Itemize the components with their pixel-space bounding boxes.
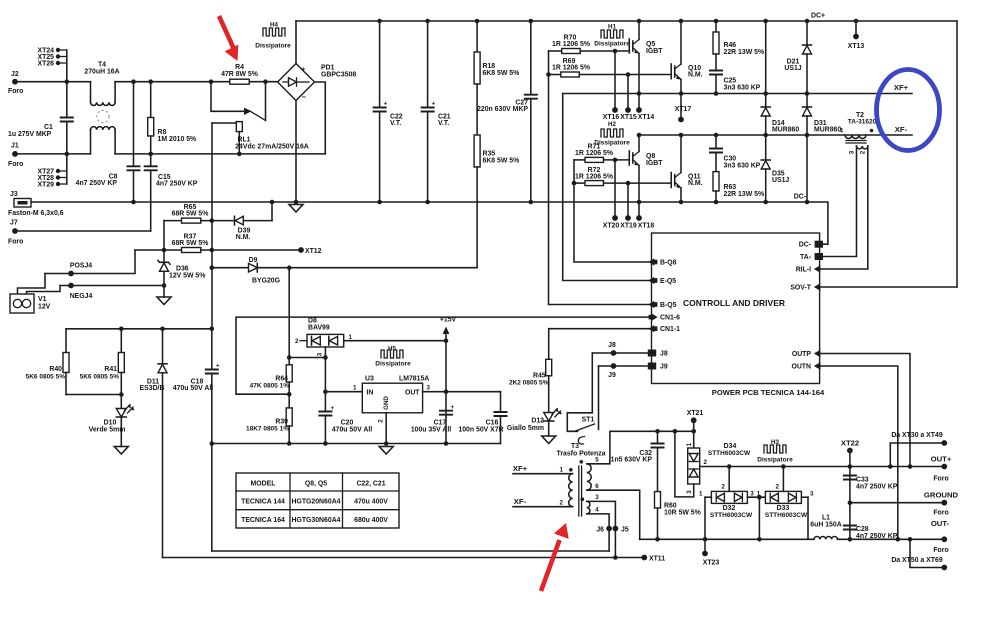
winding T3 secondary 1 — [587, 464, 591, 490]
svg-text:OUT: OUT — [405, 390, 420, 397]
ground at PD1 minus — [289, 205, 303, 213]
transistor Q5 IGBT — [629, 19, 663, 55]
terminal XT12 — [298, 247, 322, 255]
capacitor C8 — [76, 79, 141, 204]
wire mains L line — [15, 81, 91, 83]
svg-text:Giallo 5mm: Giallo 5mm — [507, 425, 544, 432]
svg-text:C33: C33 — [856, 477, 869, 484]
terminal XT11 — [641, 555, 665, 563]
svg-text:PD1: PD1 — [321, 65, 335, 72]
wire Q5 emitter — [638, 54, 640, 111]
wire OUTN to OUT- — [820, 366, 898, 539]
svg-text:220n 630V MKP: 220n 630V MKP — [477, 106, 528, 113]
terminal XT18 — [636, 215, 654, 229]
wire D32 D33 junction to bus — [758, 497, 760, 539]
svg-text:2: 2 — [704, 459, 708, 466]
zener diode D36 — [158, 250, 205, 297]
wire T3 pin4 and node J6 — [587, 514, 609, 551]
ground at U3 — [379, 447, 393, 455]
svg-text:US1J: US1J — [772, 177, 789, 184]
svg-text:2: 2 — [722, 484, 726, 491]
wire OUTP to OUT+ — [820, 354, 910, 467]
svg-text:6K8 5W 5%: 6K8 5W 5% — [483, 158, 520, 165]
svg-text:4: 4 — [840, 128, 844, 135]
svg-text:STTH6003CW: STTH6003CW — [708, 450, 751, 457]
svg-text:J8: J8 — [660, 350, 668, 357]
svg-text:D12: D12 — [531, 418, 544, 425]
svg-text:J3: J3 — [10, 191, 18, 198]
terminals XT24 XT25 XT26 — [38, 48, 67, 68]
inductor L1 — [810, 515, 841, 540]
svg-text:BAV99: BAV99 — [308, 325, 330, 332]
resistor R4 — [209, 64, 268, 84]
svg-text:1: 1 — [757, 491, 761, 498]
winding T3 secondary 2 — [587, 501, 590, 514]
node Da XT30 a XT49 — [888, 432, 947, 469]
winding T3 primary — [569, 474, 573, 507]
svg-text:U3: U3 — [365, 376, 374, 383]
svg-text:MUR860: MUR860 — [814, 127, 841, 134]
svg-text:CN1-1: CN1-1 — [660, 326, 680, 333]
terminal XT14 — [636, 107, 654, 121]
resistor R40 — [26, 329, 69, 395]
resistor R63 — [713, 172, 764, 205]
svg-text:J8: J8 — [608, 342, 616, 349]
terminal XT17 — [675, 94, 692, 123]
svg-text:R4: R4 — [235, 64, 244, 71]
svg-text:C16: C16 — [486, 420, 499, 427]
svg-text:470u 50V All: 470u 50V All — [173, 385, 213, 392]
node XF- primary — [513, 497, 573, 507]
relay RL1 contact — [211, 82, 266, 121]
pin E-Q5 — [648, 277, 676, 285]
diode D39 — [235, 200, 275, 241]
svg-text:J9: J9 — [660, 363, 668, 370]
svg-text:XF+: XF+ — [894, 83, 909, 92]
svg-text:Dissipatore: Dissipatore — [255, 43, 291, 50]
svg-text:+: + — [384, 101, 388, 108]
svg-text:XT23: XT23 — [703, 560, 720, 567]
pin SOV-T — [790, 283, 820, 291]
connector J2 — [8, 71, 23, 95]
resistor R39 — [246, 394, 292, 446]
svg-text:5: 5 — [595, 457, 599, 464]
heatsink H1 dissipatore — [594, 24, 630, 48]
svg-text:J5: J5 — [621, 527, 629, 534]
svg-text:IGBT: IGBT — [646, 48, 663, 55]
svg-text:GND: GND — [383, 396, 390, 410]
svg-text:C22, C21: C22, C21 — [356, 481, 385, 488]
node POSJ4 — [45, 250, 135, 276]
svg-text:J7: J7 — [10, 220, 18, 227]
wire XT column vertical — [66, 50, 68, 118]
resistor R64 — [250, 268, 293, 397]
switch ST1 thermostat — [574, 417, 595, 445]
wire output negative bus — [640, 538, 814, 540]
svg-text:Foro: Foro — [933, 547, 948, 554]
svg-text:DC-: DC- — [794, 194, 807, 201]
svg-text:+15V: +15V — [440, 317, 457, 324]
svg-text:1M 2010 5%: 1M 2010 5% — [158, 136, 197, 143]
svg-text:R39: R39 — [275, 419, 288, 426]
node +15V — [440, 317, 457, 446]
svg-text:R18: R18 — [483, 63, 496, 70]
pin OUTN — [791, 362, 820, 370]
svg-text:GBPC3508: GBPC3508 — [321, 72, 356, 79]
capacitor C32 — [611, 431, 665, 491]
svg-text:10R 5W 5%: 10R 5W 5% — [664, 510, 701, 517]
svg-text:1R 1206 5%: 1R 1206 5% — [552, 41, 590, 48]
svg-text:TECNICA 164: TECNICA 164 — [241, 517, 285, 524]
svg-text:H5: H5 — [388, 346, 396, 353]
svg-text:3: 3 — [686, 490, 693, 494]
svg-text:3: 3 — [849, 150, 856, 154]
heatsink H2 dissipatore — [594, 121, 630, 147]
terminal XT19 — [620, 181, 637, 230]
svg-text:GROUND: GROUND — [924, 491, 959, 500]
svg-text:H2: H2 — [608, 121, 616, 128]
wire right border to SOV-T — [956, 21, 958, 287]
wire U3 output pin 3 — [423, 391, 501, 393]
wire PD1 plus to top bus — [295, 21, 297, 64]
svg-text:TA-31620: TA-31620 — [848, 119, 877, 126]
diode D21 — [784, 19, 811, 107]
svg-text:HGTG30N60A4: HGTG30N60A4 — [291, 517, 340, 524]
wire J8 to ST1 — [567, 353, 592, 431]
terminals XT27 XT28 XT29 — [38, 169, 67, 189]
table model selection — [236, 473, 399, 528]
svg-text:68R 5W 5%: 68R 5W 5% — [172, 240, 209, 247]
wire D34 pin3 loop — [675, 431, 694, 497]
svg-text:HGTG20N60A4: HGTG20N60A4 — [291, 499, 340, 506]
connector J3 faston — [8, 191, 64, 217]
svg-text:Foro: Foro — [8, 88, 23, 95]
svg-text:T3: T3 — [571, 443, 579, 450]
svg-text:Q5: Q5 — [646, 41, 655, 48]
wire mid node XF+ line — [563, 93, 912, 95]
svg-text:XT22: XT22 — [841, 439, 859, 448]
wire T3 pin6 — [587, 490, 640, 539]
svg-text:+: + — [216, 363, 220, 370]
svg-text:OUTP: OUTP — [792, 351, 812, 358]
node XF+ primary — [513, 464, 573, 474]
node NEGJ4 — [60, 283, 164, 300]
pin B-Q5 — [648, 301, 676, 309]
svg-text:4n7 250V KP: 4n7 250V KP — [856, 533, 898, 540]
bridge rectifier PD1 — [278, 64, 357, 102]
svg-text:RL1: RL1 — [237, 137, 250, 144]
diode D31 — [803, 91, 842, 204]
wire DC- bus — [31, 202, 828, 244]
wire mains N line — [15, 153, 91, 155]
svg-text:XT17: XT17 — [675, 106, 692, 113]
svg-text:68R 5W 5%: 68R 5W 5% — [172, 211, 209, 218]
svg-text:Foro: Foro — [933, 476, 948, 483]
capacitor C20 — [318, 358, 372, 446]
terminal XT13 — [848, 19, 865, 50]
svg-text:OUT-: OUT- — [931, 519, 950, 528]
svg-text:C17: C17 — [434, 420, 447, 427]
svg-text:J2: J2 — [11, 71, 19, 78]
svg-text:E-Q5: E-Q5 — [660, 278, 676, 285]
svg-text:3: 3 — [810, 491, 814, 498]
diode D11 — [140, 329, 167, 558]
node Da XT50 a XT69 — [891, 537, 947, 570]
pin DC- — [799, 241, 823, 249]
ground at D10 — [114, 447, 128, 455]
diode D9 — [210, 257, 478, 285]
ground at D12 — [542, 436, 556, 444]
svg-text:100u 35V All: 100u 35V All — [411, 427, 451, 434]
svg-text:1: 1 — [686, 442, 693, 446]
svg-text:R8: R8 — [158, 129, 167, 136]
svg-text:J6: J6 — [596, 527, 604, 534]
resistor R71 — [574, 144, 629, 163]
svg-text:1R 1206 5%: 1R 1206 5% — [575, 150, 613, 157]
svg-text:J1: J1 — [11, 143, 19, 150]
svg-text:680u 400V: 680u 400V — [354, 517, 388, 524]
node J8 external — [592, 342, 651, 356]
svg-text:+: + — [301, 65, 306, 74]
wire bus C18 to T3 pin4 — [212, 550, 609, 552]
capacitor C27 — [477, 19, 538, 205]
svg-text:4n7 250V KP: 4n7 250V KP — [856, 484, 898, 491]
svg-text:2: 2 — [560, 500, 564, 507]
wire R65 left to R37 — [163, 221, 165, 250]
svg-text:2: 2 — [295, 338, 299, 345]
led D10 verde — [89, 395, 135, 447]
svg-text:XT16: XT16 — [603, 114, 620, 121]
svg-text:XF-: XF- — [895, 125, 908, 134]
svg-text:IGBT: IGBT — [646, 160, 663, 167]
wire J9 to ST1 — [598, 366, 600, 430]
diode D14 — [761, 19, 799, 160]
terminal XT16 — [603, 49, 620, 121]
svg-text:D9: D9 — [249, 257, 258, 264]
wire PD1 AC2 to mains N — [315, 82, 326, 154]
connector J7 — [8, 220, 151, 246]
resistor R69 — [546, 58, 671, 77]
capacitor C15 — [144, 166, 198, 231]
svg-text:3: 3 — [595, 494, 599, 501]
wire gate node to B-Q5 — [549, 51, 652, 305]
resistor R60 — [655, 492, 701, 542]
annotation red arrow to T3 — [541, 523, 569, 591]
svg-text:Dissipatore: Dissipatore — [375, 361, 411, 368]
regulator U3 LM7815A — [362, 376, 429, 413]
capacitor C25 — [709, 71, 761, 96]
diode D8 BAV99 — [295, 318, 352, 348]
relay RL1 coil — [212, 122, 309, 157]
svg-text:47K 0805 1%: 47K 0805 1% — [250, 383, 290, 390]
pin RIL-I — [796, 265, 821, 273]
pin J9 — [648, 363, 668, 371]
svg-text:XT14: XT14 — [638, 114, 655, 121]
svg-text:NEGJ4: NEGJ4 — [70, 293, 93, 300]
svg-text:D32: D32 — [723, 505, 736, 512]
svg-text:22R 13W 5%: 22R 13W 5% — [724, 191, 765, 198]
svg-text:Da XT30 a XT49: Da XT30 a XT49 — [891, 432, 942, 439]
ground at D36 — [157, 297, 171, 305]
svg-text:LM7815A: LM7815A — [399, 376, 429, 383]
svg-text:V1: V1 — [38, 296, 47, 303]
pin B-Q8 — [648, 258, 676, 266]
svg-text:6uH 150A: 6uH 150A — [810, 522, 841, 529]
svg-text:MODEL: MODEL — [251, 481, 276, 488]
resistor R35 — [474, 84, 519, 268]
heatsink H3 dissipatore — [757, 439, 793, 464]
svg-text:C28: C28 — [856, 526, 869, 533]
svg-text:4: 4 — [595, 507, 599, 514]
svg-text:OUTN: OUTN — [791, 363, 811, 370]
svg-text:CONTROLL AND DRIVER: CONTROLL AND DRIVER — [683, 298, 785, 308]
node OUT- foro — [931, 519, 950, 554]
svg-text:ST1: ST1 — [582, 417, 595, 424]
svg-text:100n 50V X7R: 100n 50V X7R — [458, 427, 503, 434]
wire XF- line — [639, 134, 912, 136]
svg-text:Foro: Foro — [8, 239, 23, 246]
resistor R8 — [148, 79, 197, 166]
wire D32 pin1 to bus and XT23 — [704, 497, 706, 539]
svg-text:J9: J9 — [608, 372, 616, 379]
resistor R37 — [135, 234, 301, 253]
svg-text:XF+: XF+ — [513, 464, 528, 473]
svg-text:6: 6 — [595, 483, 599, 490]
wire ground line output — [850, 502, 944, 504]
svg-text:TECNICA 144: TECNICA 144 — [241, 499, 285, 506]
svg-text:XT13: XT13 — [848, 43, 865, 50]
svg-text:−: − — [302, 93, 307, 102]
svg-text:Q8, Q5: Q8, Q5 — [305, 481, 327, 488]
svg-text:IN: IN — [367, 390, 374, 397]
core T3 — [579, 466, 582, 516]
svg-text:Dissipatore: Dissipatore — [757, 457, 793, 464]
svg-text:47R 8W 5%: 47R 8W 5% — [221, 71, 258, 78]
capacitor C18 — [173, 329, 220, 551]
svg-text:2K2 0805 5%: 2K2 0805 5% — [509, 380, 549, 387]
terminal XT15 — [620, 72, 637, 121]
svg-text:1R 1206 5%: 1R 1206 5% — [552, 65, 590, 72]
svg-text:XT15: XT15 — [620, 114, 637, 121]
svg-text:5K6 0805 5%: 5K6 0805 5% — [26, 374, 66, 381]
svg-text:XT18: XT18 — [638, 223, 655, 230]
svg-text:R45: R45 — [533, 373, 546, 380]
node OUT+ foro — [931, 455, 952, 483]
wire secondary ground bus — [212, 443, 501, 445]
transformer T3 trasfo potenza — [556, 443, 605, 458]
svg-text:N.M.: N.M. — [688, 72, 703, 79]
wire 24V node line — [66, 328, 212, 330]
svg-text:3n3 630 KP: 3n3 630 KP — [724, 85, 761, 92]
wire CN1-1 line — [549, 328, 652, 330]
svg-text:4n7 250V KP: 4n7 250V KP — [76, 180, 118, 187]
svg-text:3n3 630 KP: 3n3 630 KP — [724, 163, 761, 170]
wire DC+ top bus — [296, 20, 957, 22]
pin CN1-6 — [649, 314, 680, 322]
svg-text:DC+: DC+ — [811, 13, 825, 20]
svg-text:+: + — [331, 405, 335, 412]
svg-text:470u 50V All: 470u 50V All — [332, 427, 372, 434]
annotation blue ellipse around XF — [877, 70, 940, 151]
svg-text:R60: R60 — [664, 503, 677, 510]
svg-text:XT21: XT21 — [687, 410, 704, 417]
transistor Q11 — [671, 133, 702, 205]
svg-text:+: + — [432, 101, 436, 108]
wire D8 pin1 to +15V — [344, 340, 446, 342]
capacitor C17 — [411, 404, 455, 434]
wire Q8 emitter — [638, 166, 640, 219]
node GROUND foro — [924, 491, 959, 517]
wire mid node to E-Q5 — [563, 94, 652, 281]
svg-text:2: 2 — [378, 419, 385, 423]
svg-text:1: 1 — [353, 385, 357, 392]
svg-text:1R 1206 5%: 1R 1206 5% — [575, 174, 613, 181]
capacitor C22 — [373, 19, 403, 205]
diode D34 STTH6003CW — [686, 442, 751, 494]
svg-text:XT11: XT11 — [649, 556, 665, 563]
svg-text:R64: R64 — [275, 376, 288, 383]
resistor R18 — [474, 19, 519, 84]
resistor R65 — [164, 204, 235, 223]
svg-text:22R 13W 5%: 22R 13W 5% — [724, 49, 765, 56]
wire CN1-6 feedback loop — [236, 317, 652, 394]
wire OUT+ rail — [700, 466, 945, 468]
diode D35 — [761, 160, 789, 204]
svg-text:R63: R63 — [724, 184, 737, 191]
svg-text:2: 2 — [860, 150, 867, 154]
capacitor C33 — [843, 476, 898, 491]
svg-text:D8: D8 — [308, 318, 317, 325]
svg-text:D33: D33 — [777, 505, 790, 512]
svg-text:+: + — [451, 404, 455, 411]
transformer T2 current transformer — [840, 112, 877, 154]
svg-text:D34: D34 — [724, 443, 737, 450]
svg-text:BYG20G: BYG20G — [252, 278, 280, 285]
svg-text:POWER PCB TECNICA 144-164: POWER PCB TECNICA 144-164 — [712, 388, 825, 397]
svg-text:XT29: XT29 — [38, 182, 55, 189]
svg-text:C30: C30 — [724, 156, 737, 163]
svg-text:4n7 250V KP: 4n7 250V KP — [156, 181, 198, 188]
svg-text:Foro: Foro — [933, 510, 948, 517]
terminal XT23 — [702, 551, 719, 567]
svg-text:L1: L1 — [822, 515, 830, 522]
battery V1 12V — [10, 274, 60, 314]
svg-text:270uH 16A: 270uH 16A — [84, 69, 119, 76]
svg-text:12V: 12V — [38, 304, 51, 311]
wire R40 R41 bottoms — [66, 394, 121, 396]
svg-text:12V 5W 5%: 12V 5W 5% — [169, 273, 205, 280]
svg-text:N.M.: N.M. — [688, 180, 703, 187]
svg-text:24Vdc 27mA/250V 16A: 24Vdc 27mA/250V 16A — [235, 144, 309, 151]
svg-text:3: 3 — [750, 491, 754, 498]
terminal XT22 — [841, 439, 859, 540]
terminal XT21 — [687, 410, 704, 448]
resistor R72 — [572, 167, 672, 186]
capacitor C28 — [843, 526, 898, 541]
capacitor C21 — [421, 19, 451, 205]
svg-text:3: 3 — [317, 352, 324, 356]
capacitor C30 — [709, 133, 761, 172]
svg-text:Dissipatore: Dissipatore — [594, 41, 630, 48]
svg-text:DC-: DC- — [799, 242, 812, 249]
capacitor C1 — [8, 118, 74, 139]
svg-text:6K8 5W 5%: 6K8 5W 5% — [483, 70, 520, 77]
svg-text:SOV-T: SOV-T — [790, 284, 811, 291]
svg-text:XF-: XF- — [514, 497, 527, 506]
transistor Q10 — [671, 19, 702, 96]
svg-text:Verde 5mm: Verde 5mm — [89, 427, 126, 434]
svg-text:Faston-M 6,3x0,6: Faston-M 6,3x0,6 — [8, 210, 64, 217]
